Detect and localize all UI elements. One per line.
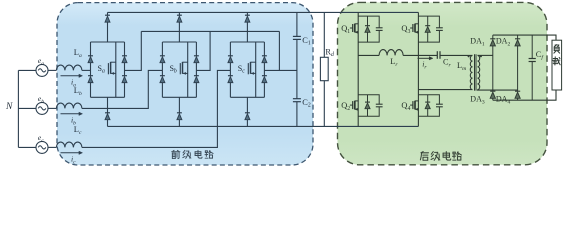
MOSFET Q3 channel bar	[414, 24, 416, 33]
current arrow ir	[418, 57, 430, 59]
diode (cell Sb, right bottom)	[194, 75, 199, 77]
rectifier branch 2 upper wire	[517, 35, 519, 39]
antiparallel diode of Q2	[367, 95, 369, 102]
front-stage region (blue dashed rounded box)	[57, 3, 313, 165]
wire: resistor Rd to bottom rail	[323, 81, 325, 127]
wire: neutral bus vertical	[17, 70, 19, 147]
label: rear-stage caption (hou ji dian lu)	[421, 152, 423, 153]
diode DA1	[490, 38, 495, 40]
diode (cell Sc, right top)	[262, 55, 267, 57]
polarity dot (primary)	[468, 55, 470, 57]
inductor Lb	[56, 103, 82, 108]
wire: left leg midpoint to resonant inductor	[358, 54, 379, 56]
wire: rectifier bottom rail to load	[493, 90, 556, 100]
diode (cell Sa, left top)	[88, 55, 93, 57]
wire: Cf to bottom rail	[531, 62, 533, 101]
wire: boost diode to cell Sb bridge top	[178, 22, 180, 42]
Q3 antiparallel-diode / snubber loop outline	[418, 16, 439, 42]
antiparallel diode of Q4	[427, 95, 429, 102]
wire: lower diode to bottom rail	[107, 120, 109, 127]
diode DA4	[515, 90, 520, 92]
snubber capacitor of Q4	[436, 103, 443, 105]
wire: phase b stub from neutral bus to source	[18, 107, 36, 109]
MOSFET Q3 drain/source stubs	[415, 23, 418, 25]
wire: cell Sc bridge bottom to lower diode	[246, 97, 248, 113]
wire: C1 to C2 (midpoint branch)	[296, 39, 298, 98]
MOSFET Q2 channel bar	[354, 101, 356, 110]
cell Sc right branch mid wire	[263, 63, 265, 76]
MOSFET Q2 drain/source stubs	[355, 100, 358, 102]
MOSFET Sa drain/source stubs	[111, 61, 116, 63]
inductor Lc	[56, 142, 82, 147]
polarity dot (secondary)	[480, 55, 482, 57]
MOSFET Q3 source arrow	[415, 31, 417, 33]
wire: C2 to bottom rail	[296, 102, 298, 127]
cell Sa left branch upper wire	[90, 42, 92, 56]
antiparallel diode of Q3	[427, 16, 429, 26]
MOSFET Sc drain/source vertical	[255, 42, 257, 97]
MOSFET Sc gate bar	[247, 63, 249, 74]
MOSFET Sb channel bar	[182, 62, 184, 74]
boost diode (cell Sa to +rail)	[105, 14, 110, 16]
MOSFET Sb drain/source vertical	[187, 42, 189, 97]
switch cell Sa: bridge top edge	[91, 41, 125, 43]
MOSFET Q1 gate bar	[352, 24, 354, 32]
wire: top rail to filter capacitor Cf	[531, 35, 533, 58]
wire: secondary bottom to rectifier branch 2 (crosses branch 1)	[478, 89, 518, 92]
wire: secondary top to rectifier branch 1	[478, 54, 493, 56]
wire: Lr to resonant capacitor Cr (crosses right leg)	[403, 54, 437, 56]
MOSFET Q4 channel bar	[414, 101, 416, 110]
diode (cell Sc, left top)	[228, 55, 233, 57]
current arrow ib	[61, 113, 80, 115]
wire: right leg midpoint return to primary bottom	[418, 89, 472, 91]
MOSFET Q2 gate lead	[350, 104, 353, 106]
MOSFET Sc source arrow	[251, 72, 254, 74]
diode (cell Sc, right bottom)	[262, 75, 267, 77]
wire: inverter right leg (Q3/Q4)	[417, 12, 419, 126]
boost diode (cell Sb to +rail)	[177, 14, 182, 16]
wire: top rail to resistor Rd	[323, 12, 325, 57]
antiparallel diode of Q1	[367, 16, 369, 26]
wire: +rail to capacitor C1	[296, 12, 298, 36]
lower diode (cell Sa to -rail)	[105, 112, 110, 114]
wire: cell Sb top node to boost diode	[178, 12, 180, 15]
snubber capacitor of Q1	[376, 27, 383, 29]
wire: phase b from source into front stage	[48, 107, 56, 109]
label: front-stage caption (qian ji dian lu)	[173, 149, 174, 152]
wire: top DC rail	[108, 11, 419, 13]
transformer secondary winding	[477, 55, 479, 89]
cell Sa left branch lower wire	[90, 83, 92, 98]
MOSFET Sa drain/source vertical	[115, 42, 117, 97]
switch cell Sa: bridge bottom edge	[91, 96, 125, 98]
Q1 antiparallel-diode / snubber loop outline	[358, 16, 379, 42]
MOSFET Q4 gate bar	[412, 101, 414, 109]
cell Sc right branch lower wire	[263, 83, 265, 98]
wire: bottom DC rail	[108, 125, 419, 127]
diode (cell Sa, right top)	[122, 55, 127, 57]
MOSFET Q2 source arrow	[355, 108, 357, 110]
MOSFET Sa gate bar	[107, 63, 109, 74]
diode (cell Sb, left top)	[160, 55, 165, 57]
inductor La	[56, 65, 82, 70]
wire: cell Sa top node to boost diode	[107, 12, 109, 15]
MOSFET Sa channel bar	[110, 62, 112, 74]
diode (cell Sc, left bottom)	[228, 75, 233, 77]
cell Sc left branch mid wire	[229, 63, 231, 76]
lower diode (cell Sb to -rail)	[177, 112, 182, 114]
wire: inverter left leg (Q1/Q2)	[357, 12, 359, 126]
wire: Cr to transformer primary	[440, 54, 473, 56]
snubber capacitor of Q2	[376, 103, 383, 105]
MOSFET Q1 channel bar	[354, 24, 356, 33]
diode (cell Sb, left bottom)	[160, 75, 165, 77]
MOSFET Q1 source arrow	[355, 31, 357, 33]
MOSFET Sb source arrow	[183, 72, 186, 74]
transformer core	[474, 54, 476, 90]
label: load box text (fu zai)	[554, 45, 556, 47]
wire: phase c from source into front stage	[48, 146, 56, 148]
boost diode (cell Sc to +rail)	[245, 14, 250, 16]
svg-text:N: N	[5, 102, 13, 112]
rear-stage region (green dashed rounded box)	[338, 2, 548, 164]
wire: midpoint rail (switch cells to capacitor midpoint)	[141, 30, 279, 32]
wire: lower diode to bottom rail	[178, 120, 180, 127]
cell Sb left branch mid wire	[161, 63, 163, 76]
MOSFET Q3 gate bar	[412, 24, 414, 32]
lower diode (cell Sc to -rail)	[245, 112, 250, 114]
cell Sc left branch upper wire	[229, 42, 231, 56]
cell Sa left branch mid wire	[90, 63, 92, 76]
switch cell Sb: bridge bottom edge	[162, 96, 196, 98]
MOSFET Q4 drain/source stubs	[415, 100, 418, 102]
MOSFET Sa source arrow	[111, 72, 114, 74]
switch cell Sc: bridge bottom edge	[230, 96, 264, 98]
current arrow ic	[61, 152, 80, 154]
wire: cell Sa right mid to midpoint riser	[125, 31, 142, 70]
wire: rectifier top rail to load	[493, 35, 556, 40]
wire: phase a stub from neutral bus to source	[18, 69, 36, 71]
switch cell Sb: bridge top edge	[162, 41, 196, 43]
cell Sa right branch mid wire	[124, 63, 126, 76]
switch cell Sc: bridge top edge	[230, 41, 264, 43]
MOSFET Q4 source arrow	[415, 108, 417, 110]
wire: cell Sa bridge bottom to lower diode	[107, 97, 109, 113]
cell Sc right branch upper wire	[263, 42, 265, 56]
Q2 antiparallel-diode / snubber loop outline	[358, 95, 379, 117]
current arrow ia	[61, 75, 80, 77]
capacitor C1	[293, 35, 301, 37]
cell Sb right branch upper wire	[195, 42, 197, 56]
filter capacitor Cf	[529, 58, 536, 60]
resonant capacitor Cr (series plates)	[436, 51, 438, 59]
MOSFET Sb gate bar	[179, 63, 181, 74]
wire: phase c stub from neutral bus to source	[18, 146, 36, 148]
MOSFET Q1 gate lead	[350, 27, 353, 29]
diode DA2	[515, 38, 520, 40]
diode (cell Sb, right top)	[194, 55, 199, 57]
diode (cell Sa, right bottom)	[122, 75, 127, 77]
wire: boost diode to cell Sa bridge top	[107, 22, 109, 42]
cell Sc left branch lower wire	[229, 83, 231, 98]
wire: boost diode to cell Sc bridge top	[246, 22, 248, 42]
AC source ea (circle with sine)	[36, 64, 48, 76]
resonant inductor Lr	[379, 50, 403, 56]
MOSFET Q2 gate bar	[352, 101, 354, 109]
transformer primary winding	[470, 55, 472, 89]
MOSFET Sb drain/source stubs	[183, 61, 188, 63]
MOSFET Sc channel bar	[250, 62, 252, 74]
snubber capacitor of Q3	[436, 27, 443, 29]
resistor Rd (rectangle)	[320, 57, 328, 80]
Q4 antiparallel-diode / snubber loop outline	[418, 95, 439, 117]
wire: cell Sc top node to boost diode	[246, 12, 248, 15]
cell Sb left branch lower wire	[161, 83, 163, 98]
diode DA3	[490, 90, 495, 92]
wire: phase a from source into front stage	[48, 69, 56, 71]
wire: phase b run, riser and entry to cell Sb	[82, 70, 162, 108]
MOSFET Q3 gate lead	[410, 27, 413, 29]
cell Sa right branch lower wire	[124, 83, 126, 98]
diode (cell Sa, left bottom)	[88, 75, 93, 77]
capacitor C2	[293, 98, 301, 100]
MOSFET Q4 gate lead	[410, 104, 413, 106]
wire: mid rail down-riser at right end	[278, 31, 280, 70]
AC source eb (circle with sine)	[36, 102, 48, 114]
cell Sb right branch lower wire	[195, 83, 197, 98]
wire: phase a from La to cell Sa left branch	[82, 69, 91, 71]
wire: cell Sb bridge bottom to lower diode	[178, 97, 180, 113]
cell Sb left branch upper wire	[161, 42, 163, 56]
wire: cell Sc right mid to capacitor midpoint (via riser from mid rail)	[264, 69, 297, 71]
MOSFET Sc drain/source stubs	[251, 61, 256, 63]
wire: phase c run, riser and entry to cell Sc (crosses bottom rail)	[82, 70, 231, 147]
AC source ec (circle with sine)	[36, 141, 48, 153]
load box (fu-zai)	[552, 40, 562, 90]
cell Sa right branch upper wire	[124, 42, 126, 56]
wire: lower diode to bottom rail	[246, 120, 248, 127]
wire: cell Sb right mid to midpoint riser	[196, 31, 210, 70]
cell Sb right branch mid wire	[195, 63, 197, 76]
rectifier branch 1 upper wire	[492, 35, 494, 39]
MOSFET Q1 drain/source stubs	[355, 23, 358, 25]
